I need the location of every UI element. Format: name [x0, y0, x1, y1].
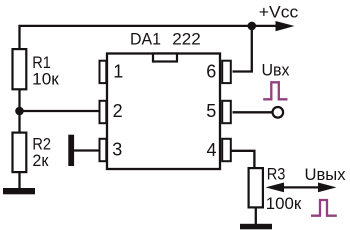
wiper arrow right head toward Uвых — [318, 183, 337, 193]
resistor R2 — [13, 133, 27, 173]
svg-text:2к: 2к — [32, 151, 49, 170]
junction dot at Vcc / pin 6 — [248, 22, 257, 31]
ground bar below R2 — [3, 188, 35, 194]
svg-text:Uвх: Uвх — [262, 61, 290, 80]
svg-text:6: 6 — [206, 62, 216, 82]
svg-text:2: 2 — [113, 101, 123, 121]
pin 5 box — [222, 101, 231, 123]
resistor R3 (potentiometer) — [249, 168, 263, 207]
wiper arrow left head into R3 — [266, 183, 285, 193]
wire pin 5 to output terminal — [233, 111, 272, 113]
ground bar below R3 — [240, 224, 272, 230]
svg-text:10к: 10к — [32, 70, 59, 89]
node A junction dot R1/R2/pin2 — [15, 107, 24, 116]
svg-text:4: 4 — [207, 140, 217, 160]
chassis bar at pin 3 — [68, 135, 74, 166]
wire chassis bar to pin 3 — [74, 149, 101, 151]
svg-text:R3: R3 — [267, 165, 286, 184]
input pulse symbol — [263, 82, 287, 99]
resistor R1 — [13, 49, 27, 89]
svg-text:3: 3 — [112, 140, 122, 160]
IC notch marker — [153, 54, 177, 62]
svg-text:100к: 100к — [266, 194, 302, 213]
svg-text:+Vcc: +Vcc — [259, 2, 299, 21]
wire from R1 top to +Vcc rail — [20, 26, 278, 49]
svg-text:222: 222 — [172, 30, 201, 49]
output pulse symbol — [311, 200, 337, 216]
svg-text:5: 5 — [206, 101, 216, 121]
wiper double arrow shaft of potentiometer R3 — [281, 186, 321, 188]
wire from Vcc rail down to pin 6 — [233, 26, 252, 72]
wire node A to pin 2 — [20, 110, 102, 112]
pin 6 box — [222, 61, 231, 83]
pin 2 box — [100, 101, 107, 123]
svg-text:Uвых: Uвых — [305, 165, 346, 184]
svg-text:1: 1 — [113, 62, 123, 82]
wire R1 bottom to node A — [18, 90, 20, 112]
svg-text:DA1: DA1 — [130, 30, 161, 49]
wire R2 bottom to ground — [18, 173, 20, 191]
wire R3 bottom to ground — [255, 209, 257, 226]
output terminal circle at pin 5 — [273, 107, 284, 118]
pin 1 box — [100, 61, 107, 83]
wire pin 4 to R3 top — [232, 151, 255, 169]
op-amp IC DA1 body — [107, 54, 220, 170]
+Vcc arrow — [276, 21, 295, 31]
wire node A to R2 top — [18, 111, 20, 133]
pin 4 box — [222, 139, 231, 161]
pin 3 box — [100, 139, 107, 161]
